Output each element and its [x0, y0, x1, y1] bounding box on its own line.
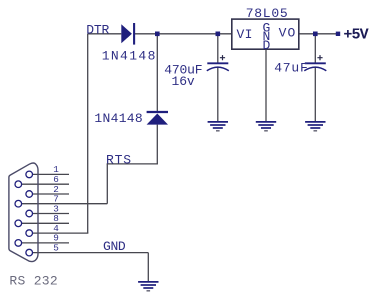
svg-text:RTS: RTS [106, 153, 132, 168]
svg-text:1N4148: 1N4148 [102, 48, 157, 63]
wire pin9 stub [22, 242, 69, 244]
svg-text:47uF: 47uF [274, 61, 308, 76]
capacitor C1 plus mark [220, 55, 225, 60]
wire pin3 stub [33, 213, 70, 215]
node A junction dot [155, 32, 160, 37]
pin 4 circle [26, 230, 33, 237]
pin 8 circle [15, 220, 22, 227]
wire pin8 stub [22, 222, 69, 224]
ground (C2 branch) [305, 122, 325, 131]
svg-text:GND: GND [103, 239, 126, 254]
ground (C1 branch) [208, 122, 228, 131]
wire pin6 stub [22, 183, 69, 185]
wire pin5 GND run [33, 252, 149, 254]
wire node A to D2 cathode [156, 34, 158, 111]
node C junction dot [313, 32, 318, 37]
pin 1 circle [26, 171, 33, 178]
wire top rail D1 to 78L05 VI [135, 33, 232, 35]
wire top rail left of D1 [88, 33, 122, 35]
wire 78L05 GND pin to ground [265, 49, 267, 121]
svg-text:D: D [263, 38, 271, 53]
svg-text:78L05: 78L05 [246, 6, 289, 21]
connector J1 DB9 shell outline [9, 163, 38, 262]
pin label GND (vertical) [263, 20, 271, 52]
regulator U1 78L05 body [232, 19, 299, 49]
wire node B down to C1 top plate [217, 34, 219, 63]
pin 6 circle [15, 181, 22, 188]
svg-text:RS 232: RS 232 [9, 274, 58, 289]
svg-text:16v: 16v [172, 74, 195, 89]
capacitor C2 47uF top plate [305, 62, 326, 64]
wire pin7 to RTS drop [22, 203, 108, 205]
diode D2 1N4148 (RTS series) [147, 112, 168, 125]
capacitor C1 470uF top plate [207, 62, 228, 64]
ground (RS232 pin5) [138, 282, 158, 291]
svg-text:1N4148: 1N4148 [94, 111, 143, 126]
pin 7 circle [15, 200, 22, 207]
svg-text:VI: VI [237, 27, 253, 42]
wire VO output to +5V terminal [299, 33, 338, 35]
svg-text:VO: VO [279, 26, 297, 41]
pin 5 circle [26, 249, 33, 256]
capacitor C2 curved bottom plate [304, 67, 326, 71]
wire RTS horizontal run [107, 163, 158, 165]
wire node C down to C2 top plate [314, 34, 316, 63]
wire D2 anode down to RTS run [156, 125, 158, 164]
diode D1 1N4148 (DTR series) [121, 23, 134, 45]
capacitor C2 plus mark [317, 55, 322, 60]
+5V output terminal pad [336, 32, 340, 36]
wire GND vertical drop [147, 253, 149, 282]
svg-text:DTR: DTR [86, 22, 109, 37]
capacitor C1 curved bottom plate [207, 67, 229, 71]
ground (78L05 GND pin) [256, 122, 276, 131]
wire pin4 to DTR vertical [33, 232, 89, 234]
pin 3 circle [26, 210, 33, 217]
pin 9 circle [15, 240, 22, 247]
wire pin1 stub [33, 173, 70, 175]
wire RTS vertical drop [106, 164, 108, 204]
node B junction dot [216, 32, 221, 37]
wire C2 bottom to ground [314, 67, 316, 121]
svg-text:5: 5 [53, 242, 59, 253]
pin 2 circle [26, 191, 33, 198]
wire DTR vertical from rail to pin4 row [87, 34, 89, 233]
wire pin2 stub [33, 193, 70, 195]
svg-text:+5V: +5V [343, 27, 368, 44]
wire C1 bottom to ground [217, 67, 219, 121]
